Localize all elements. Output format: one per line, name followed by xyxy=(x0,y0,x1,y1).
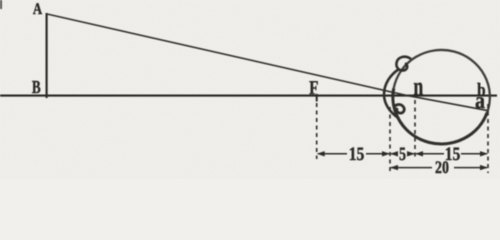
dashed extension line below n xyxy=(414,100,416,158)
dimension 15 (n to retina) xyxy=(416,153,444,155)
arrow right at retina line (20) xyxy=(480,165,488,170)
cornea top hook xyxy=(396,57,411,71)
focal point tick xyxy=(316,94,318,102)
edge artifact top-left xyxy=(0,0,2,9)
dashed extension line below cornea xyxy=(389,107,391,173)
arrow left at cornea line (20) xyxy=(390,165,398,170)
paper background xyxy=(0,0,500,179)
cornea arc xyxy=(384,69,399,119)
optical axis xyxy=(0,95,497,97)
arrow left at cornea line (5) xyxy=(390,151,398,156)
paper grain overlay xyxy=(0,0,1,1)
arrow right at cornea line xyxy=(382,151,390,156)
cornea bottom hook xyxy=(395,104,405,113)
dimension 20 (cornea to retina) xyxy=(391,167,432,169)
dashed extension line below F xyxy=(316,103,318,159)
dimension 5 (cornea to n) xyxy=(391,153,398,155)
eyeball circle xyxy=(394,50,490,113)
arrow left at F line xyxy=(317,151,325,156)
arrow right at retina line (15) xyxy=(480,151,488,156)
object AB vertical line xyxy=(45,13,47,98)
arrow left at n line (15) xyxy=(415,151,423,156)
arrow right at n line (5) xyxy=(407,151,415,156)
dimension 15 (F to cornea) line xyxy=(318,153,347,155)
ray A to retina through n xyxy=(47,14,489,111)
dashed extension line below b (retina) xyxy=(487,104,489,173)
